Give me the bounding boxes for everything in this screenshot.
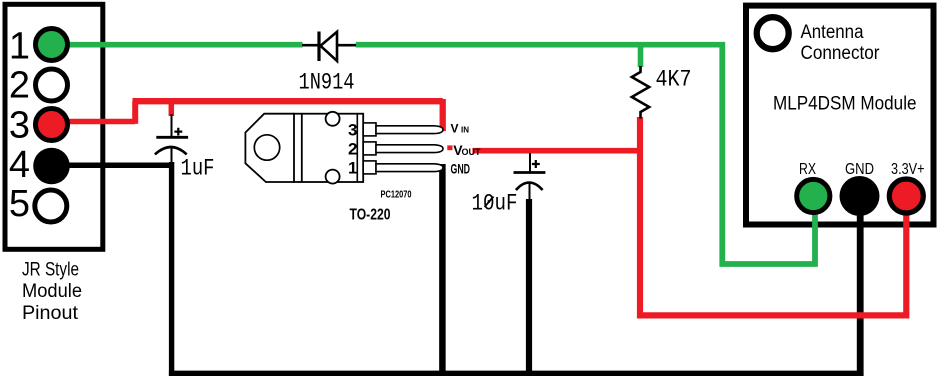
label GND pin [451,161,471,177]
label 4K7 [656,67,692,93]
svg-text:GND: GND [451,161,471,177]
label 1uF [181,156,215,182]
label VOUT [453,142,481,158]
wire black 10uF down [526,199,532,376]
label PC12070 [381,190,412,201]
wire red 1uF stub [169,102,175,116]
label 1N914 [299,70,355,96]
pin number 3 [348,121,357,140]
capacitor C2 10uF [514,153,546,200]
svg-text:4K7: 4K7 [656,67,692,93]
svg-text:OUT: OUT [462,147,482,157]
number 4 [9,144,30,186]
svg-text:3.3V+: 3.3V+ [891,161,925,178]
wire black TO220 GND down [439,164,446,376]
pin number 2 [348,140,357,159]
antenna connector circle [757,17,789,49]
JR connector box [5,4,103,249]
svg-text:1: 1 [9,26,30,68]
label Module [22,281,82,302]
label 3.3V+ [891,161,925,178]
pin 1 [363,161,443,174]
number 5 [9,183,30,225]
svg-text:1uF: 1uF [181,156,215,182]
wire green pin1 to diode [60,42,303,48]
label JR Style [22,260,79,281]
wire red VOUT to vertical [472,148,640,154]
svg-text:V: V [451,122,459,136]
RX circle (green) [797,179,830,212]
label VIN [451,122,470,136]
svg-text:IN: IN [461,126,469,135]
label GND module [845,161,874,178]
svg-text:Pinout: Pinout [22,303,79,324]
regulator U1 TO-220 package [245,112,363,184]
wire red vertical down and to 3.3V [640,117,906,315]
wire black pin4 [60,162,174,168]
wire red step up [132,101,138,124]
pin 2 circle (white) [36,69,68,101]
wire green down-right to RX [722,42,815,264]
number 3 [9,105,30,147]
label RX [799,161,816,178]
svg-text:Antenna: Antenna [801,22,864,43]
wire red VOUT pin segment [447,145,452,150]
GND circle (black) [840,176,880,216]
label MLP4DSM Module [773,94,917,115]
wire black bottom bus [169,371,863,376]
wire red top horizontal to VIN [133,99,443,131]
number 2 [9,65,30,107]
svg-text:4: 4 [9,144,30,186]
pin 1 circle (green) [36,29,68,61]
label Antenna [801,22,864,43]
svg-text:2: 2 [9,65,30,107]
svg-text:10uF: 10uF [472,191,518,217]
label Pinout [22,303,79,324]
3.3V circle (red) [889,179,923,213]
wire red pin3 [60,119,135,125]
pin 5 circle (white) [35,190,67,222]
wire black 1uF down [169,162,174,376]
wire green diode to corner [356,42,725,48]
resistor R1 4K7 [632,66,649,119]
svg-text:3: 3 [9,105,30,147]
svg-text:3: 3 [348,121,357,140]
pin 3 [363,123,443,136]
svg-text:Module: Module [22,281,82,302]
svg-text:MLP4DSM Module: MLP4DSM Module [773,94,917,115]
diode D1 1N914 [302,32,356,62]
svg-text:RX: RX [799,161,816,178]
label Connector [801,43,881,64]
label TO-220 [350,207,391,224]
svg-text:1N914: 1N914 [299,70,355,96]
svg-text:TO-220: TO-220 [350,207,391,224]
label 10uF [472,191,518,217]
pin 2 [363,142,443,155]
pin number 1 [348,159,357,178]
wire green resistor stub [638,46,644,67]
MLP4DSM module box [746,6,934,225]
svg-text:PC12070: PC12070 [381,190,412,201]
pin 3 circle (red) [36,109,68,141]
wire black module GND down [857,212,864,376]
svg-text:2: 2 [348,140,357,159]
capacitor C1 1uF [155,114,188,163]
svg-text:1: 1 [348,159,357,178]
svg-text:5: 5 [9,183,30,225]
svg-text:GND: GND [845,161,874,178]
svg-text:Connector: Connector [801,43,881,64]
pin 4 circle (black) [33,148,70,185]
svg-text:JR Style: JR Style [22,260,79,281]
number 1 [9,26,30,68]
